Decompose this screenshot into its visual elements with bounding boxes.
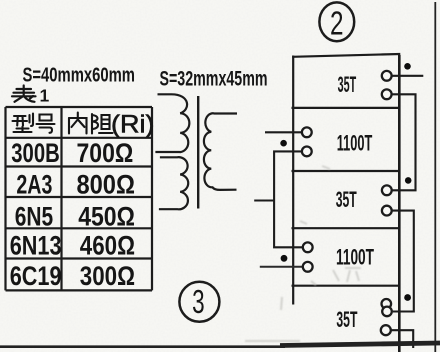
header char 内 (69, 113, 87, 134)
table caption 表1 (12, 86, 36, 102)
svg-text:1100T: 1100T (337, 131, 373, 156)
svg-text:300B: 300B (11, 138, 60, 168)
svg-text:35T: 35T (336, 187, 357, 212)
terminal winding3 pin a (382, 185, 392, 195)
figure right border (434, 2, 436, 352)
terminal winding3 pin b (382, 206, 392, 216)
polarity dot winding2 (280, 140, 287, 147)
terminal winding1 pin a (382, 71, 392, 81)
transformer T primary winding (lower section, 3 turns, taps left) (159, 157, 188, 209)
wire winding1 lower to winding3 upper (392, 94, 416, 190)
svg-text:6N13: 6N13 (10, 230, 62, 260)
boundary 1100T/35T (292, 285, 399, 287)
terminal winding5 pin b (381, 325, 391, 335)
transformer secondary winding (4 turns, taps right) (204, 113, 237, 190)
transformer T primary winding (upper section, 3 turns, taps left) (155, 94, 189, 152)
svg-text:35T: 35T (338, 72, 357, 97)
boundary 35T/1100T (292, 107, 399, 109)
svg-text:2A3: 2A3 (16, 170, 52, 200)
svg-text:S=40mmx60mm: S=40mmx60mm (23, 65, 136, 87)
boundary 35T/1100T (292, 227, 399, 229)
polarity dot winding5 (404, 294, 411, 301)
terminal winding5 pin a (doubled in scan) (382, 299, 392, 309)
callout circle 3 (179, 282, 219, 322)
svg-text:300Ω: 300Ω (80, 261, 135, 291)
wire winding1 upper lead (392, 75, 423, 77)
svg-text:6N5: 6N5 (15, 201, 53, 231)
figure bottom border (0, 345, 285, 348)
terminal winding2 pin a (302, 127, 312, 137)
header char 阻 (92, 114, 113, 134)
terminal winding4 pin a (303, 242, 313, 252)
terminal winding2 pin b (302, 147, 312, 157)
svg-text:6C19: 6C19 (10, 261, 62, 291)
svg-text:35T: 35T (336, 307, 357, 332)
header char 型 (13, 114, 34, 133)
polarity dot winding4 (281, 255, 288, 262)
table T1 grid (6, 107, 153, 290)
svg-text:1100T: 1100T (336, 244, 374, 269)
wire winding2 lower to winding4 upper (274, 151, 302, 247)
wire winding4 lower lead (open left) (260, 266, 303, 268)
transformer core (197, 96, 199, 209)
svg-text:700Ω: 700Ω (77, 138, 134, 168)
winding stack left edge (292, 56, 294, 305)
svg-text:1: 1 (40, 86, 50, 106)
terminal winding4 pin b (303, 262, 313, 272)
wire winding2 upper lead (open left) (265, 131, 302, 133)
svg-text:(Ri): (Ri) (111, 111, 155, 139)
wire winding3 lower to winding5 upper (392, 211, 414, 312)
callout circle 2 (319, 2, 354, 41)
svg-text:3: 3 (192, 283, 205, 320)
boundary 1100T/35T (292, 170, 399, 172)
winding stack top line (292, 54, 400, 57)
terminal winding1 pin b (382, 89, 392, 99)
tap stub on link wire (254, 199, 274, 201)
svg-text:450Ω: 450Ω (78, 201, 135, 231)
svg-text:2: 2 (330, 5, 344, 42)
header char 号 (37, 115, 55, 133)
svg-text:460Ω: 460Ω (80, 230, 135, 260)
winding stack right edge (398, 55, 401, 352)
wire winding5 lower lead down to bottom (391, 330, 413, 348)
svg-text:800Ω: 800Ω (76, 170, 135, 200)
svg-text:S=32mmx45mm: S=32mmx45mm (160, 68, 268, 91)
polarity dot winding3 (405, 177, 412, 184)
polarity dot winding1 (404, 63, 411, 70)
